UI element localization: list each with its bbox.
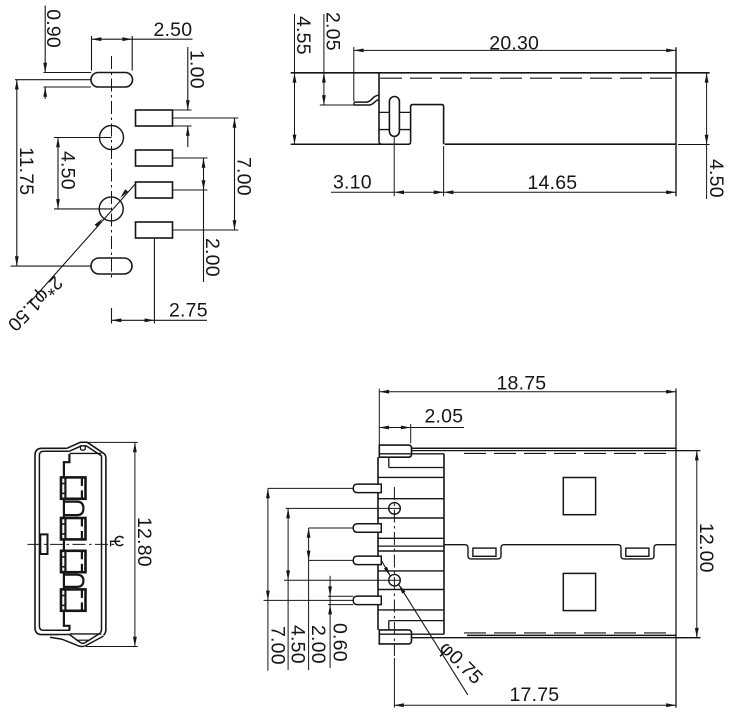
B housing line lower (379, 129, 411, 131)
leader arrow to hole2 lower-left (95, 219, 103, 228)
dim 0.90 arrow up (43, 87, 47, 97)
B left edge (378, 73, 380, 142)
dim 1.00 line upper (187, 47, 189, 110)
C contact 2 inner right v top (81, 519, 83, 527)
dim 4.50B arrow down (705, 135, 709, 145)
dim 2.50 ext left (91, 36, 93, 71)
D pin 2 (353, 524, 381, 533)
C dip upper line (57, 633, 100, 643)
D bottom tab inner line to body edge (379, 633, 444, 635)
C contact 2 inner right v bottom (81, 531, 83, 538)
D front face (377, 457, 379, 629)
dim 7.00D arrow up (266, 488, 270, 498)
D top hidden dashed (464, 452, 668, 454)
D leader arrow lower (399, 584, 406, 593)
C rib 2 (64, 575, 84, 587)
dim 2.50 arrow left (92, 37, 102, 41)
dim 2.75 arrow left (112, 318, 122, 322)
view A vertical centerline (111, 56, 113, 281)
dim 18.75 arrow right (666, 390, 676, 394)
svg-text:18.75: 18.75 (497, 372, 547, 394)
ext hole1 center (4.50) + crosshair (286, 507, 401, 509)
dim 18.75 line (379, 391, 676, 393)
ext pill1 bottom (44, 86, 92, 88)
D bottom hidden dashed (464, 632, 668, 634)
svg-text:2.05: 2.05 (425, 405, 464, 427)
D leader arrow upper (384, 567, 391, 576)
dim 12.80 ext top (88, 441, 137, 443)
C dip lower line (50, 636, 104, 646)
ext pin4 center (7.00) (264, 599, 354, 601)
dim 18.75 ext left (378, 389, 380, 446)
B pin hole pill (389, 97, 399, 137)
C contact 3 tick2 (61, 566, 65, 568)
ext pill1 top (44, 72, 92, 74)
dim 12.80 arrow up (133, 442, 137, 452)
dim 2.00A arrow up (202, 158, 206, 168)
dim 4.55 arrow up (293, 73, 297, 83)
dim 12.80 line (134, 442, 136, 646)
view A pad 3 (136, 182, 173, 198)
view A top peg pill (91, 73, 133, 88)
D slot line y=551.0 (378, 550, 444, 552)
C contact 2 inner left v (64, 518, 66, 539)
dim 2.05D arrow left (379, 426, 389, 430)
C peak inner + right edge inner (69, 446, 101, 633)
dim 12.00 arrow down (695, 628, 699, 638)
C contact 4 tick1 (61, 595, 65, 597)
B housing line upper (379, 111, 411, 113)
D top tab inner line to body edge (379, 453, 444, 455)
dim 2.75 ext left (111, 308, 113, 324)
dim 7.00A ext bottom (173, 229, 239, 231)
D bottom tab (379, 630, 411, 644)
dim 4.50D arrow up (286, 508, 290, 518)
svg-text:2.50: 2.50 (154, 19, 193, 41)
dim 4.50A arrow up (56, 138, 60, 148)
ext pin2 center (2.00) (309, 527, 354, 529)
dim 17.75 ext right(part) (675, 640, 677, 708)
C contact 4 inner right v bottom (81, 602, 83, 609)
B ext notch right (3.10/14.65) (443, 146, 445, 196)
svg-text:2.00: 2.00 (307, 625, 329, 664)
C side bump (40, 534, 47, 554)
dim 2.05B arrow up (322, 73, 326, 83)
D body left edge (443, 454, 445, 635)
C horizontal centerline (28, 543, 115, 545)
D vertical centerline (393, 487, 395, 656)
D ledge v bottom (388, 621, 390, 630)
dim 11.75 arrow up (15, 80, 19, 90)
dim 12.80 ext bottom (86, 646, 138, 648)
dim 1.00 arrow up (186, 126, 190, 136)
dim 1.00 ext bottom (173, 125, 192, 127)
D leader seg 1 (382, 561, 391, 577)
dim 7.00A arrow up (233, 118, 237, 128)
svg-text:2.75: 2.75 (169, 300, 208, 322)
C contact 1 inner right v top (81, 478, 83, 486)
dim 2.00A ext top (173, 157, 208, 159)
dim 17.75 line (394, 704, 676, 706)
svg-text:20.30: 20.30 (489, 32, 539, 54)
dim 1.00 ext top (173, 109, 192, 111)
D latch tab 2 (626, 548, 649, 556)
D centerline solid ext (17.75) (393, 658, 395, 708)
dim 0.60 arrow up(outside) (328, 605, 332, 615)
D shell hole bottom (563, 573, 595, 610)
C rib 1 (64, 502, 84, 515)
dim 0.90 line upper (44, 6, 46, 73)
dim 4.50B ext bottom (678, 144, 710, 146)
dim 7.00D arrow down (266, 591, 270, 601)
C contact 4 tick2 (61, 604, 65, 606)
ext pin3 center (2.00) (309, 559, 354, 561)
D top tab (379, 445, 411, 457)
D slot line y=538.3 (378, 537, 444, 539)
D slot line y=570.9 (378, 570, 444, 572)
dim 0.60 line (329, 576, 331, 668)
svg-text:2.05: 2.05 (321, 12, 343, 51)
dim 0.60 arrow down(outside) (328, 586, 332, 596)
dim 2.75 line (112, 319, 208, 321)
svg-text:2.00: 2.00 (201, 238, 223, 277)
D body right edge + exts (675, 389, 677, 708)
C contact 1 tick1 (61, 483, 65, 485)
dim 2.75 ext right / pad4 stem (153, 238, 155, 324)
D slot line y=589.5 (378, 589, 444, 591)
svg-text:4.50: 4.50 (287, 625, 309, 664)
dim 2.00A arrow down (202, 180, 206, 190)
dim 2.05D arrow right (401, 426, 411, 430)
D leader seg 2 (399, 584, 468, 695)
svg-text:0.90: 0.90 (42, 9, 64, 48)
C contact 3 tick1 (61, 556, 65, 558)
dim 7.00A arrow down (233, 220, 237, 230)
dim 14.65 arrow left (444, 190, 454, 194)
C contact 2 outer (61, 518, 86, 539)
dim 2.05B line (323, 14, 325, 105)
dim 11.75 line (16, 80, 18, 266)
B hidden top dashed (380, 77, 674, 79)
dim 1.00 line lower (187, 126, 189, 147)
B tongue bottom line (354, 100, 379, 105)
dim 4.55 arrow down (293, 135, 297, 145)
dim 20.30 ext left (353, 47, 355, 101)
svg-text:12.80: 12.80 (133, 517, 155, 567)
C centerline symbol (111, 541, 121, 546)
D pin 3 (353, 556, 381, 565)
D slot line y=609.9 (378, 609, 444, 611)
B ext tongue bottom (2.05) (320, 104, 354, 106)
C contact 1 outer (61, 477, 86, 498)
dim 14.65 arrow right (666, 190, 676, 194)
C line over dip (70, 633, 101, 635)
C contact 2 tick1 (61, 523, 65, 525)
svg-text:7.00: 7.00 (232, 157, 254, 196)
C contact 1 tick2 (61, 492, 65, 494)
D front seam line (378, 545, 444, 547)
B tongue tip cap (353, 102, 355, 105)
svg-text:17.75: 17.75 (510, 684, 560, 706)
dim 2.00D arrow down (307, 551, 311, 561)
C contact 3 inner left v (64, 551, 66, 572)
view A pad 4 (136, 222, 173, 238)
svg-text:4.50: 4.50 (705, 159, 727, 198)
C outer frame (35, 448, 67, 634)
C seam notch at apex (81, 445, 86, 450)
dim 1.00 arrow down (186, 100, 190, 110)
dim 17.75 arrow right (666, 703, 676, 707)
C contact 4 outer (61, 589, 86, 610)
dim 7.00D line (267, 488, 269, 670)
D hole 1 (389, 503, 401, 515)
C small line near dip apex (76, 639, 88, 641)
dim 2.00D line (308, 528, 310, 670)
D pin 4 (353, 596, 381, 605)
B pin center ext (3.10) (393, 138, 395, 197)
dim 20.30 arrow right (666, 49, 676, 53)
dim 20.30 line (354, 49, 676, 51)
dim 18.75 arrow left (379, 390, 389, 394)
dim 2.00D arrow up (307, 528, 311, 538)
svg-text:14.65: 14.65 (528, 172, 578, 194)
leader 2*phi1.50 line (31, 184, 136, 302)
svg-text:0.60: 0.60 (329, 623, 351, 662)
dim 0.90 arrow down (43, 63, 47, 73)
dim 11.75 arrow down (15, 256, 19, 266)
dim 4.50A line (57, 138, 59, 209)
dim 2.00A ext bottom (173, 189, 208, 191)
D pin 1 (353, 484, 381, 493)
D ledge v top (388, 457, 390, 467)
svg-text:12.00: 12.00 (695, 523, 717, 573)
D slot line y=477.4 (378, 476, 444, 478)
D shell hole top (563, 478, 595, 515)
view A hole 1 (100, 126, 124, 150)
B tongue top line (354, 95, 379, 102)
ext circle1 center (4.50) (54, 137, 112, 139)
B bottom edge (445, 143, 676, 145)
dim 12.00 line (696, 451, 698, 638)
C contact 4 inner left v (64, 589, 66, 610)
D ledge h bottom (389, 620, 444, 622)
B right edge + exts (675, 47, 677, 196)
dim 17.75 arrow left (394, 703, 404, 707)
D hole 2 (389, 574, 401, 586)
C contact 2 tick2 (61, 533, 65, 535)
dim 2.50 line (92, 38, 193, 40)
D bottom solid line 2 + ext (411, 637, 700, 639)
ext pin1 center (7.00) (268, 487, 353, 489)
B top edge + extensions (291, 72, 710, 74)
svg-text:4.55: 4.55 (292, 16, 314, 55)
view A pad 2 (136, 150, 173, 166)
D slot line y=518.0 (378, 517, 444, 519)
D latch tab 1 (473, 548, 496, 556)
D seam line with latch windows (444, 545, 676, 559)
dim 12.00 arrow up (695, 451, 699, 461)
dim 2.50 ext right (131, 36, 133, 71)
B notch (411, 105, 444, 145)
dim 2.75 arrow right (145, 318, 155, 322)
dim 3.10 arrow left (394, 190, 404, 194)
D top solid line 1 (411, 447, 676, 449)
ext pin4 bottom (0.60) (328, 604, 353, 606)
C contact 3 inner right v top (81, 552, 83, 560)
D bottom solid line 1 (467, 634, 676, 636)
ext circle2 center (4.50) (54, 208, 111, 210)
ext pill1 mid (11.75) (15, 79, 91, 81)
view A bottom peg pill (91, 258, 132, 274)
dim 0.90 line lower (44, 87, 46, 99)
dim 4.50D line (287, 508, 289, 670)
dim 12.80 arrow down (133, 637, 137, 647)
svg-text:11.75: 11.75 (15, 147, 37, 195)
dim 4.50A arrow down (56, 199, 60, 209)
dim 4.55 line (294, 14, 296, 144)
dim 3.10 arrow right (434, 190, 444, 194)
dim 7.00A line (234, 118, 236, 230)
dim 4.50B line (706, 73, 708, 199)
dim 2.05B arrow down (322, 95, 326, 105)
view A pad 1 (136, 110, 173, 126)
view A hole 2 (99, 197, 123, 221)
dim 20.30 arrow left (354, 49, 364, 53)
C peak outer + right edge outer (67, 442, 106, 635)
svg-text:7.00: 7.00 (267, 626, 289, 665)
ext hole2 center (4.50) + crosshair (284, 579, 400, 581)
dim 7.00A ext top (173, 117, 239, 119)
C contact 1 inner right v bottom (81, 490, 83, 497)
dim 2.05D ext right (410, 424, 412, 443)
C contact 4 inner right v top (81, 590, 83, 598)
dim 4.50B arrow up (705, 73, 709, 83)
C tongue edge (64, 454, 70, 630)
dim 12.00 ext bottom (678, 637, 701, 639)
dim 3.10/14.65 line (331, 191, 676, 193)
leader arrow to hole2 upper-right (120, 189, 128, 198)
dim 2.50 arrow right (122, 37, 132, 41)
B front bottom-left round (379, 141, 382, 144)
C contact 3 inner right v bottom (81, 564, 83, 571)
ext pill2 mid (11.75) (11, 265, 92, 267)
C line under peak (70, 452, 102, 454)
dim 4.50D arrow down (286, 570, 290, 580)
B front bottom + ext (291, 142, 411, 144)
dim 12.00 ext top (678, 450, 701, 452)
D ledge h top (389, 467, 444, 469)
C inner frame (39, 451, 70, 630)
svg-text:1.00: 1.00 (186, 50, 208, 89)
dim 2.05D line (379, 427, 464, 429)
svg-text:3.10: 3.10 (333, 171, 372, 193)
dim 2.00A line (203, 158, 205, 282)
C contact 3 outer (61, 551, 86, 572)
C contact 1 inner left v (64, 477, 66, 498)
D slot line y=498.7 (378, 498, 444, 500)
ext pin4 top (0.60) (328, 595, 353, 597)
svg-text:4.50: 4.50 (56, 151, 78, 190)
D top solid line 2 + ext (411, 450, 700, 452)
